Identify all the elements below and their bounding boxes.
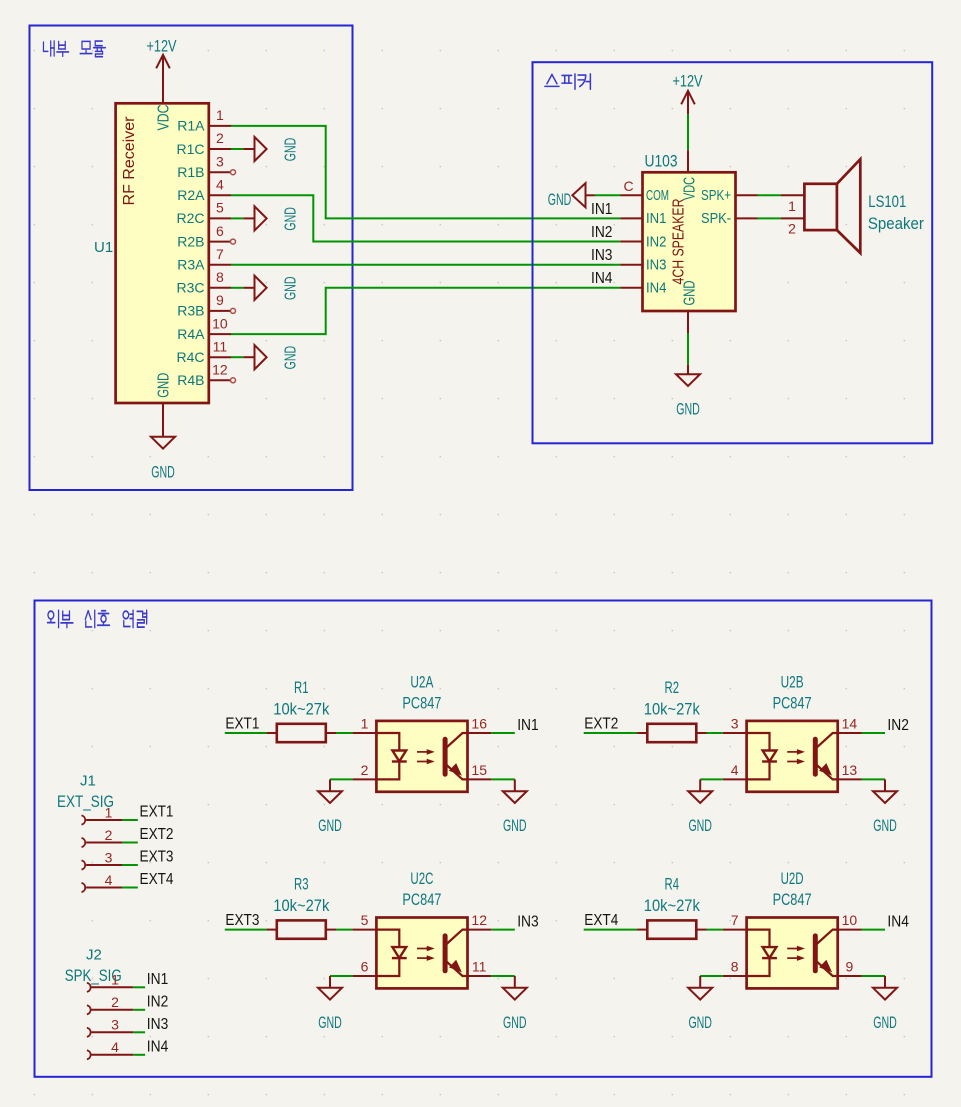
resistor R3 10k~27k (267, 875, 336, 938)
U103 pin COM / C (621, 194, 643, 196)
svg-text:GND: GND (688, 1014, 712, 1032)
GND power symbol at U1 pin 2 (231, 137, 299, 161)
svg-text:8: 8 (216, 269, 224, 285)
svg-text:GND: GND (873, 817, 897, 835)
U1 pin 5 R2C (176, 200, 231, 227)
svg-text:U2A: U2A (410, 674, 433, 692)
svg-text:7: 7 (731, 912, 739, 928)
wire U2B pin 13 to ground (862, 778, 886, 780)
ground (U1) (162, 403, 164, 425)
wire U2B pin 4 to ground (700, 778, 723, 780)
U103 pin VDC stub (687, 150, 689, 172)
svg-text:EXT3: EXT3 (140, 849, 174, 866)
svg-text:Speaker: Speaker (868, 215, 925, 233)
opto-coupler U2B PC847 (723, 674, 862, 792)
svg-text:EXT4: EXT4 (140, 871, 174, 888)
opto-coupler U2A PC847 (353, 674, 492, 792)
U1 pin 10 R4A (177, 315, 231, 342)
wire EXT1 to R1 (225, 732, 267, 734)
svg-text:R1C: R1C (176, 141, 204, 157)
section box 외부 신호 연결 (35, 601, 932, 1077)
svg-text:4: 4 (216, 177, 224, 193)
svg-text:R4B: R4B (177, 372, 204, 388)
svg-text:7: 7 (216, 246, 224, 262)
U103 pin GND stub (687, 311, 689, 333)
svg-text:RF Receiver: RF Receiver (121, 117, 138, 206)
svg-text:EXT2: EXT2 (140, 826, 174, 843)
svg-text:5: 5 (361, 912, 369, 928)
svg-text:GND: GND (282, 207, 299, 231)
svg-text:16: 16 (471, 716, 487, 732)
svg-text:GND: GND (503, 1014, 527, 1032)
svg-text:3: 3 (105, 849, 113, 865)
svg-text:VDC: VDC (682, 177, 699, 200)
svg-text:4: 4 (111, 1039, 119, 1055)
svg-text:IN3: IN3 (147, 1016, 169, 1033)
svg-text:8: 8 (731, 959, 739, 975)
U1 pin 11 R4C (176, 338, 231, 365)
U1 pin 3 R1B (177, 153, 235, 180)
GND power symbol at U1 pin 5 (231, 206, 299, 230)
wire U2C pin 12 to IN3 (491, 929, 515, 931)
GND power symbol at U1 pin 11 (231, 345, 299, 369)
U1 pin 9 R3B (177, 292, 235, 319)
svg-text:IN4: IN4 (147, 1038, 169, 1055)
ground (left of U2C) (329, 976, 331, 988)
svg-text:IN3: IN3 (646, 258, 667, 274)
section box 스피커 (533, 62, 933, 443)
J1 pin 2 EXT2 (82, 827, 138, 847)
J2 pin 1 IN1 (87, 972, 145, 992)
svg-text:GND: GND (318, 817, 342, 835)
svg-text:U2B: U2B (781, 674, 804, 692)
svg-text:6: 6 (361, 959, 369, 975)
svg-text:10k~27k: 10k~27k (273, 701, 330, 719)
resistor R4 10k~27k (637, 875, 706, 938)
wire U2A pin 2 to ground (330, 778, 353, 780)
U1 pin 7 R3A (177, 246, 231, 273)
wire SPK+ (758, 194, 782, 196)
svg-text:R2: R2 (665, 679, 680, 697)
svg-text:LS101: LS101 (868, 193, 906, 211)
wire EXT4 to R4 (584, 929, 637, 931)
U1 body RF Receiver (116, 103, 209, 403)
svg-text:5: 5 (216, 200, 224, 216)
svg-text:R1A: R1A (177, 118, 205, 134)
svg-text:IN2: IN2 (646, 234, 667, 250)
U1 pin 1 R1A (177, 107, 231, 134)
svg-text:COM: COM (646, 188, 669, 204)
svg-text:3: 3 (731, 716, 739, 732)
svg-text:3: 3 (216, 153, 224, 169)
speaker LS101 (781, 159, 860, 253)
GND power symbol at U1 pin 8 (231, 276, 299, 300)
svg-text:11: 11 (472, 959, 487, 975)
svg-text:2: 2 (216, 130, 224, 146)
svg-text:R3A: R3A (177, 257, 205, 273)
U103 pin IN2 (620, 234, 666, 250)
svg-text:10: 10 (842, 912, 858, 928)
svg-text:SPK+: SPK+ (701, 188, 731, 204)
svg-text:IN2: IN2 (591, 224, 613, 241)
svg-text:2: 2 (111, 994, 119, 1010)
svg-text:GND: GND (682, 281, 699, 306)
wire U2C pin 6 to ground (330, 975, 353, 977)
U103 pin IN1 (620, 211, 666, 227)
svg-text:1: 1 (788, 198, 796, 214)
svg-text:IN1: IN1 (147, 971, 169, 988)
wire R3A to IN3 (231, 264, 620, 266)
ground (right of U2B) (884, 779, 886, 791)
svg-text:GND: GND (282, 138, 299, 162)
resistor R1 10k~27k (267, 679, 336, 742)
section box 내부 모듈 (30, 26, 353, 491)
svg-text:1: 1 (105, 804, 113, 820)
svg-text:11: 11 (213, 338, 228, 354)
power +12V (U103) (687, 91, 689, 114)
svg-text:J1: J1 (80, 773, 96, 790)
wire R2 to U2B (707, 732, 723, 734)
svg-text:EXT1: EXT1 (140, 804, 174, 821)
svg-text:R4A: R4A (177, 326, 205, 342)
svg-text:R2B: R2B (177, 233, 204, 249)
J2 pin 4 IN4 (87, 1039, 145, 1059)
svg-text:10: 10 (212, 315, 228, 331)
U1 pin 8 R3C (176, 269, 231, 296)
svg-text:U2D: U2D (781, 870, 804, 888)
U1 pin 2 R1C (176, 130, 231, 157)
wire U2B pin 14 to IN2 (862, 732, 886, 734)
svg-text:PC847: PC847 (402, 891, 441, 909)
ground (right of U2D) (884, 976, 886, 988)
svg-text:EXT4: EXT4 (584, 912, 618, 929)
svg-text:1: 1 (361, 716, 369, 732)
svg-text:1: 1 (111, 972, 119, 988)
svg-text:14: 14 (842, 716, 858, 732)
svg-text:PC847: PC847 (402, 694, 441, 712)
svg-text:PC847: PC847 (773, 694, 812, 712)
svg-text:4: 4 (105, 872, 113, 888)
svg-text:U103: U103 (645, 152, 678, 170)
svg-text:IN3: IN3 (517, 913, 539, 930)
title 스피커 (545, 74, 591, 89)
wire SPK- (758, 217, 782, 219)
U103 pin SPK- (736, 217, 758, 219)
svg-text:SPK-: SPK- (701, 211, 731, 227)
svg-text:R2A: R2A (177, 187, 205, 203)
svg-text:EXT3: EXT3 (225, 912, 259, 929)
opto-coupler U2C PC847 (353, 870, 492, 988)
svg-text:10k~27k: 10k~27k (273, 897, 330, 915)
svg-text:2: 2 (105, 827, 113, 843)
wire R1 to U2A (336, 732, 353, 734)
svg-text:4: 4 (731, 762, 739, 778)
svg-text:J2: J2 (86, 947, 102, 964)
svg-text:GND: GND (676, 400, 700, 418)
ground (right of U2A) (514, 779, 516, 791)
svg-text:13: 13 (842, 762, 858, 778)
svg-text:GND: GND (318, 1014, 342, 1032)
ground (left of U2A) (329, 779, 331, 791)
svg-text:12: 12 (471, 912, 487, 928)
svg-text:1: 1 (216, 107, 224, 123)
U1 pin 6 R2B (177, 223, 235, 250)
U1 pin 12 R4B (177, 362, 235, 389)
svg-text:3: 3 (111, 1017, 119, 1033)
svg-text:10k~27k: 10k~27k (644, 897, 701, 915)
opto-coupler U2D PC847 (723, 870, 862, 988)
svg-text:4CH SPEAKER: 4CH SPEAKER (670, 199, 687, 285)
U103 pin IN4 (620, 281, 666, 297)
svg-text:C: C (623, 178, 633, 194)
svg-text:R2C: R2C (176, 210, 204, 226)
svg-text:IN1: IN1 (517, 717, 539, 734)
svg-text:+12V: +12V (147, 38, 177, 56)
title 외부 신호 연결 (48, 610, 147, 627)
svg-text:R4C: R4C (176, 349, 204, 365)
svg-text:IN2: IN2 (887, 717, 909, 734)
U103 body 4CH SPEAKER (643, 172, 736, 311)
svg-text:12: 12 (212, 362, 228, 378)
svg-text:R1B: R1B (177, 164, 204, 180)
wire U2A pin 16 to IN1 (491, 732, 515, 734)
J1 pin 3 EXT3 (82, 849, 138, 869)
U103 pin SPK+ (736, 194, 758, 196)
J1 pin 1 EXT1 (82, 804, 138, 824)
svg-text:IN4: IN4 (591, 270, 613, 287)
J2 pin 3 IN3 (87, 1017, 145, 1037)
wire GND (U103) (687, 333, 689, 365)
svg-text:PC847: PC847 (773, 891, 812, 909)
wire R3 to U2C (336, 929, 353, 931)
svg-text:IN1: IN1 (646, 211, 667, 227)
svg-text:GND: GND (548, 191, 572, 209)
wire EXT2 to R2 (584, 732, 637, 734)
wire COM to GND (595, 194, 621, 196)
svg-text:GND: GND (873, 1014, 897, 1032)
wire U2D pin 8 to ground (700, 975, 723, 977)
wire U2D pin 9 to ground (862, 975, 886, 977)
svg-text:R3C: R3C (176, 280, 204, 296)
svg-text:GND: GND (688, 817, 712, 835)
J1 pin 4 EXT4 (82, 872, 138, 892)
svg-text:U2C: U2C (410, 870, 433, 888)
svg-text:IN3: IN3 (591, 247, 613, 264)
svg-text:IN4: IN4 (887, 913, 909, 930)
svg-text:VDC: VDC (155, 105, 172, 131)
svg-text:6: 6 (216, 223, 224, 239)
svg-text:15: 15 (471, 762, 487, 778)
svg-text:EXT2: EXT2 (584, 715, 618, 732)
wire R1A to IN1 (231, 126, 620, 218)
ground (left of U2D) (699, 976, 701, 988)
ground (right of U2C) (514, 976, 516, 988)
svg-text:2: 2 (788, 221, 796, 237)
svg-text:EXT1: EXT1 (225, 715, 259, 732)
title 내부 모듈 (43, 41, 105, 57)
svg-text:GND: GND (282, 346, 299, 370)
svg-text:GND: GND (155, 373, 172, 398)
wire U2C pin 11 to ground (491, 975, 515, 977)
wire R4A to IN4 (231, 288, 620, 334)
GND power symbol (left of U103) (586, 194, 595, 196)
svg-text:R3B: R3B (177, 303, 204, 319)
svg-text:9: 9 (216, 292, 224, 308)
svg-text:2: 2 (361, 762, 369, 778)
U1 pin 4 R2A (177, 177, 231, 204)
power +12V (U1) (162, 55, 164, 104)
wire U2A pin 15 to ground (491, 778, 515, 780)
svg-text:R4: R4 (665, 875, 680, 893)
resistor R2 10k~27k (637, 679, 706, 742)
svg-text:GND: GND (151, 464, 175, 482)
svg-text:+12V: +12V (673, 73, 703, 91)
svg-text:U1: U1 (94, 239, 113, 256)
svg-text:IN1: IN1 (591, 201, 613, 218)
wire R2A to IN2 (231, 195, 620, 241)
ground (left of U2B) (699, 779, 701, 791)
J2 pin 2 IN2 (87, 994, 145, 1014)
svg-text:IN4: IN4 (646, 281, 667, 297)
svg-text:GND: GND (282, 277, 299, 301)
svg-text:IN2: IN2 (147, 993, 169, 1010)
svg-text:GND: GND (503, 817, 527, 835)
wire R4 to U2D (707, 929, 723, 931)
svg-text:9: 9 (846, 959, 854, 975)
ground (U103) (687, 365, 689, 375)
svg-text:10k~27k: 10k~27k (644, 701, 701, 719)
svg-text:R3: R3 (294, 875, 309, 893)
wire U2D pin 10 to IN4 (862, 929, 886, 931)
wire EXT3 to R3 (225, 929, 267, 931)
U103 pin IN3 (620, 258, 666, 274)
svg-text:R1: R1 (294, 679, 309, 697)
